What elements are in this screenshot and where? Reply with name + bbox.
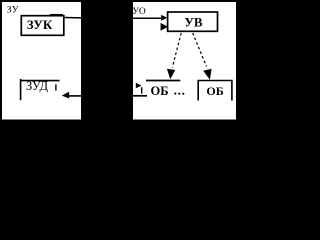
svg-text:УВ: УВ (184, 15, 203, 30)
svg-text:УО: УО (132, 7, 146, 17)
svg-text:ОБ: ОБ (151, 84, 169, 98)
svg-text:ОБ: ОБ (206, 84, 223, 98)
svg-text:ЗУ: ЗУ (7, 6, 19, 16)
svg-text:ЗУД: ЗУД (26, 79, 49, 93)
svg-text:ЗУК: ЗУК (27, 17, 53, 32)
